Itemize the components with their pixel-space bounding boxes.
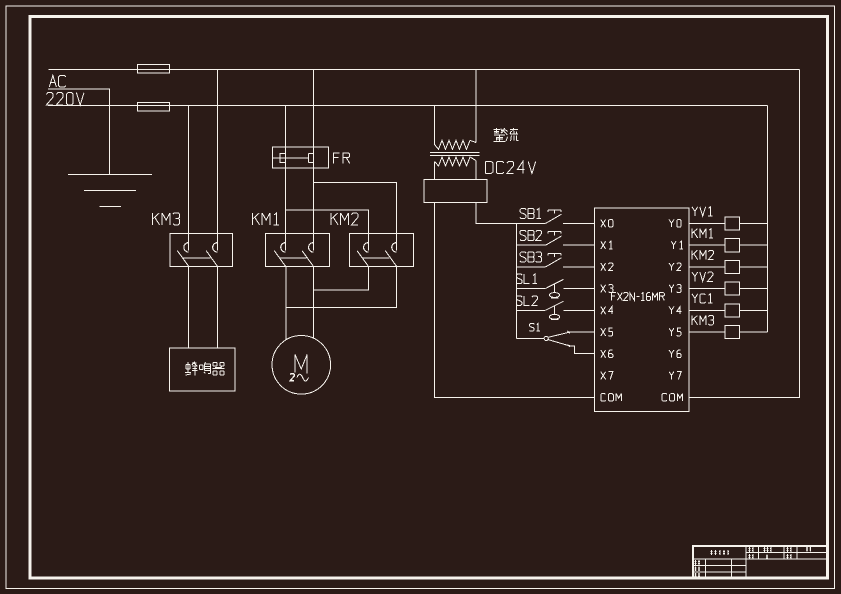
label KM1 (252, 213, 254, 225)
pin Y2 right (669, 263, 674, 267)
label AC 220V (49, 76, 56, 88)
pin X3 (601, 285, 606, 293)
fuse FU1 (138, 64, 170, 73)
buzzer box (170, 348, 236, 391)
limit switch SL2 (517, 301, 595, 320)
wire AC bus to FR pole2 (312, 70, 314, 234)
pushbutton SB1 (517, 210, 595, 224)
pin Y7 right (669, 372, 674, 376)
label output KM3 (691, 316, 693, 325)
limit switch SL1 (517, 279, 595, 298)
contactor KM2 main contacts (349, 234, 413, 267)
wire L1 AC bus (49, 69, 800, 71)
selector switch S1 (517, 331, 595, 354)
pushbutton SB2 (517, 232, 595, 246)
pin Y1 right (671, 241, 676, 245)
wire KM1 pole1 to motor (285, 267, 287, 340)
output load KM2 (689, 260, 768, 273)
label SB1 (520, 209, 526, 219)
pin X6 (601, 350, 606, 358)
pin COM (601, 394, 606, 402)
transformer secondary winding (435, 157, 477, 166)
pin Y0 right (669, 220, 674, 224)
fuse FU2 (138, 103, 170, 112)
wire AC bus to KM3 pole2 (216, 70, 218, 234)
wire KM2 pole2 crossover (286, 267, 397, 308)
contactor KM3 main contacts (170, 234, 233, 267)
PLC FX2N-16MR box (595, 208, 690, 412)
output rail to 220V bus (767, 106, 769, 333)
label FX2N-16MR (611, 293, 615, 301)
pin Y3 right (669, 285, 674, 289)
label SB3 (520, 252, 526, 262)
pin X5 (601, 328, 606, 336)
wire AC bus to transformer primary (475, 70, 477, 143)
label S1 (530, 323, 535, 331)
wire DC- rail to input COM (435, 202, 595, 397)
label KM2 (330, 213, 332, 225)
pin X4 (601, 307, 606, 315)
pin Y6 right (669, 350, 674, 354)
transformer primary winding (435, 140, 477, 149)
thermal relay FR (273, 147, 329, 168)
pin X0 (601, 220, 606, 228)
label output YV1 (692, 207, 698, 211)
motor M 2-phase (272, 336, 331, 395)
title block tiny texts (695, 547, 812, 578)
wire KM2 pole1 crossover (313, 267, 368, 291)
wire PE to ground (48, 89, 110, 175)
label output YV2 (692, 272, 698, 276)
wire 220V bus to KM3 pole1 (188, 106, 190, 234)
output load YV2 (689, 282, 768, 295)
wire windings into rectifier block (434, 162, 436, 180)
pin X7 (601, 372, 606, 380)
wire KM3 poles to buzzer (188, 267, 190, 349)
wire PLC output COM to AC bus (689, 70, 800, 398)
output load KM1 (689, 239, 768, 252)
wire 220V bus to FR pole1 (285, 106, 287, 234)
pin X2 (601, 263, 606, 271)
wire DC+ to input rail (476, 202, 517, 223)
label output YC1 (692, 294, 698, 298)
label SB2 (520, 230, 526, 240)
wire FR pole2 to KM2 pole2 (313, 182, 396, 233)
wire FR pole1 to KM2 pole1 (286, 210, 369, 234)
pin COM right (662, 394, 667, 402)
ground (68, 175, 152, 207)
output load KM3 (689, 326, 768, 339)
label rectifier (hanzi) (494, 128, 519, 142)
rectifier block (424, 180, 487, 203)
contactor KM1 main contacts (266, 234, 330, 267)
label KM3 (152, 213, 154, 225)
pin Y5 right (669, 328, 674, 332)
input feed rail (516, 223, 518, 338)
wire 220V bus to transformer primary (434, 106, 436, 145)
label output KM1 (691, 229, 693, 238)
label output KM2 (691, 250, 693, 259)
label SL2 (516, 296, 522, 306)
title block (692, 546, 827, 578)
output load YV1 (689, 217, 768, 230)
pin Y4 right (669, 307, 674, 311)
label buzzer (hanzi) (185, 362, 224, 376)
label SL1 (516, 274, 522, 284)
wire KM1 pole2 to motor (312, 267, 314, 339)
pin X1 (601, 241, 606, 249)
wire N 220V bus (48, 105, 768, 107)
transformer core (430, 152, 480, 154)
label FR (334, 153, 340, 164)
pushbutton SB3 (517, 253, 595, 267)
output load YC1 (689, 304, 768, 317)
label DC24V (485, 161, 487, 173)
